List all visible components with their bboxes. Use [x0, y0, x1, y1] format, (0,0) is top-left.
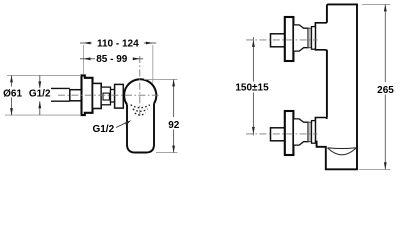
- horizontal centerline (left view): [58, 94, 160, 96]
- neck piece (left view): [101, 87, 110, 105]
- bottom fitting: flange: [285, 111, 294, 155]
- top fitting: flange: [285, 17, 294, 61]
- dimension O61: [3, 75, 22, 115]
- dimension 265: [377, 4, 394, 169]
- bottom fitting: nut: [312, 121, 316, 144]
- bottom fitting: seal ring: [308, 122, 312, 142]
- svg-text:265: 265: [377, 85, 394, 96]
- spout opening arc (bottom box): [328, 148, 357, 155]
- dimension 265 extension lines: [359, 4, 391, 169]
- control knob circle (left view): [124, 79, 156, 104]
- svg-text:92: 92: [168, 120, 180, 131]
- dimension 150+-15: [235, 37, 269, 135]
- svg-text:110 - 124: 110 - 124: [97, 38, 139, 49]
- dimension 110-124 extension lines: [84, 45, 153, 84]
- top inlet boss on body: [315, 23, 327, 52]
- dimension 110 - 124: [80, 38, 156, 49]
- dimension 85 - 99: [80, 54, 143, 65]
- dimension 92 extension lines: [144, 79, 178, 152]
- vertical centerline through knob (left view): [139, 56, 141, 116]
- handle lower body capsule (left view): [127, 102, 154, 153]
- union nut (left view): [70, 90, 82, 101]
- top fitting centerline: [246, 39, 318, 41]
- top fitting: stepped cone: [293, 25, 308, 51]
- body connector (left view): [115, 84, 124, 108]
- wall supply pipe (left view): [51, 88, 70, 101]
- neck inner detail box (left view): [103, 93, 109, 100]
- mixer body column outline: [315, 4, 357, 169]
- G1/2 leader label (lower connection): [92, 120, 131, 135]
- svg-text:85 - 99: 85 - 99: [96, 54, 128, 65]
- grip ridge dashed arcs (left view): [131, 105, 150, 115]
- dimension O61 extension lines: [5, 75, 81, 115]
- bottom inlet boss on body: [315, 118, 327, 142]
- svg-text:G1/2: G1/2: [92, 124, 114, 135]
- svg-text:Ø61: Ø61: [3, 88, 22, 99]
- svg-text:150±15: 150±15: [235, 83, 269, 94]
- flange hub (left view): [93, 83, 102, 108]
- dimension G1/2 (pipe): [29, 75, 51, 115]
- wall flange escutcheon (left view): [82, 75, 93, 115]
- spout opening chord line (bottom box): [328, 147, 357, 150]
- bottom fitting: square nub: [271, 128, 285, 141]
- dimension 92: [168, 79, 180, 152]
- bottom fitting: stepped cone: [293, 119, 308, 145]
- bottom fitting centerline: [246, 133, 318, 135]
- top fitting: square nub: [271, 34, 285, 47]
- top fitting: seal ring: [308, 28, 312, 48]
- top fitting: nut: [312, 27, 316, 50]
- svg-text:G1/2: G1/2: [29, 89, 51, 100]
- body connector small step (left view): [111, 90, 115, 103]
